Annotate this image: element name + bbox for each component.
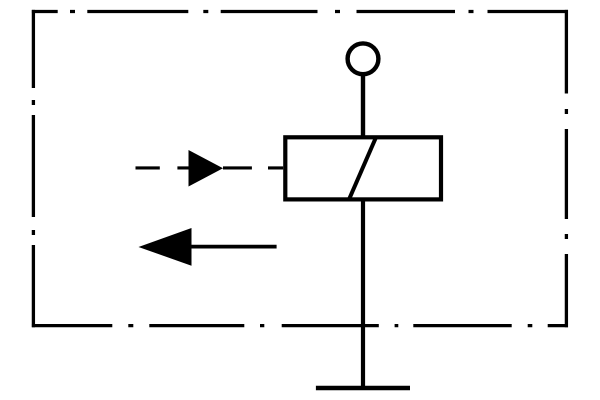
terminal circle (supply terminal) bbox=[348, 43, 379, 74]
ground bar bbox=[316, 386, 410, 391]
control dashed line into box bbox=[136, 166, 284, 169]
diagonal stroke inside box bbox=[349, 137, 376, 199]
output arrow shaft pointing left bbox=[190, 245, 277, 249]
enclosure border bottom (dash-dot) bbox=[32, 324, 568, 327]
enclosure border right (dash-dot) bbox=[565, 10, 568, 327]
wire box to ground bbox=[361, 199, 365, 388]
enclosure border top (dash-dot) bbox=[32, 10, 568, 13]
component box (regulator element) bbox=[285, 137, 441, 199]
control arrowhead pointing right bbox=[189, 150, 224, 187]
output arrowhead pointing left bbox=[139, 228, 192, 266]
wire terminal to box bbox=[361, 76, 365, 138]
enclosure border left (dash-dot) bbox=[32, 10, 35, 327]
